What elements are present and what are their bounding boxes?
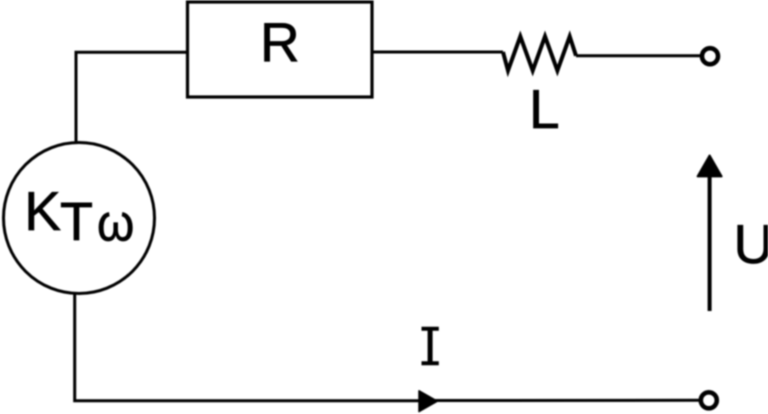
inductor L (zigzag): [503, 36, 576, 70]
wire (inductor to top terminal): [576, 54, 702, 57]
svg-text:T: T: [60, 192, 93, 252]
wire (box right to inductor): [372, 51, 503, 54]
svg-text:U: U: [734, 213, 768, 275]
source (circle, EMF KTω): [4, 143, 155, 294]
resistor R (box): [188, 2, 373, 97]
svg-text:R: R: [260, 11, 300, 73]
wire (source top to top rail): [76, 52, 186, 143]
svg-text:ω: ω: [97, 194, 134, 252]
voltage arrow U: [698, 156, 722, 312]
terminal (bottom right, open): [701, 392, 717, 408]
wire (source bottom to bottom rail): [75, 293, 419, 401]
current arrow head I: [419, 391, 437, 412]
wire (arrow to bottom terminal): [430, 399, 701, 402]
terminal (top right, open): [702, 48, 718, 64]
value label KTω: [24, 180, 134, 252]
svg-text:K: K: [24, 180, 61, 242]
label I (serif style glyph): [422, 327, 439, 366]
svg-text:L: L: [529, 78, 560, 140]
